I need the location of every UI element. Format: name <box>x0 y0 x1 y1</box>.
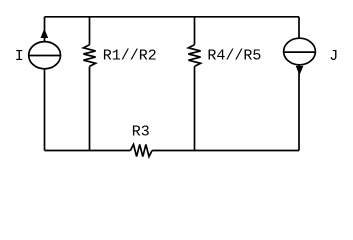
wire bottom rail left segment <box>45 150 131 152</box>
wire R4//R5 bottom lead <box>194 66 196 150</box>
current source J <box>284 38 316 74</box>
svg-text:J: J <box>329 48 338 65</box>
svg-text:I: I <box>15 48 24 65</box>
wire I source bottom lead <box>44 69 46 151</box>
wire I source top lead <box>44 17 46 43</box>
wire top rail <box>45 16 300 18</box>
svg-text:R3: R3 <box>132 123 150 140</box>
resistor R4//R5 <box>188 45 200 67</box>
resistor R3 <box>130 144 152 156</box>
wire bottom rail right segment <box>152 150 299 152</box>
wire R4//R5 top lead <box>194 17 196 45</box>
wire J source top lead <box>298 17 300 39</box>
resistor R1//R2 <box>83 45 95 67</box>
current source I <box>29 30 61 69</box>
wire J source bottom lead <box>298 65 300 151</box>
wire R1//R2 top lead <box>89 17 91 45</box>
svg-text:R4//R5: R4//R5 <box>207 47 261 64</box>
svg-text:R1//R2: R1//R2 <box>103 47 157 64</box>
wire R1//R2 bottom lead <box>89 66 91 150</box>
